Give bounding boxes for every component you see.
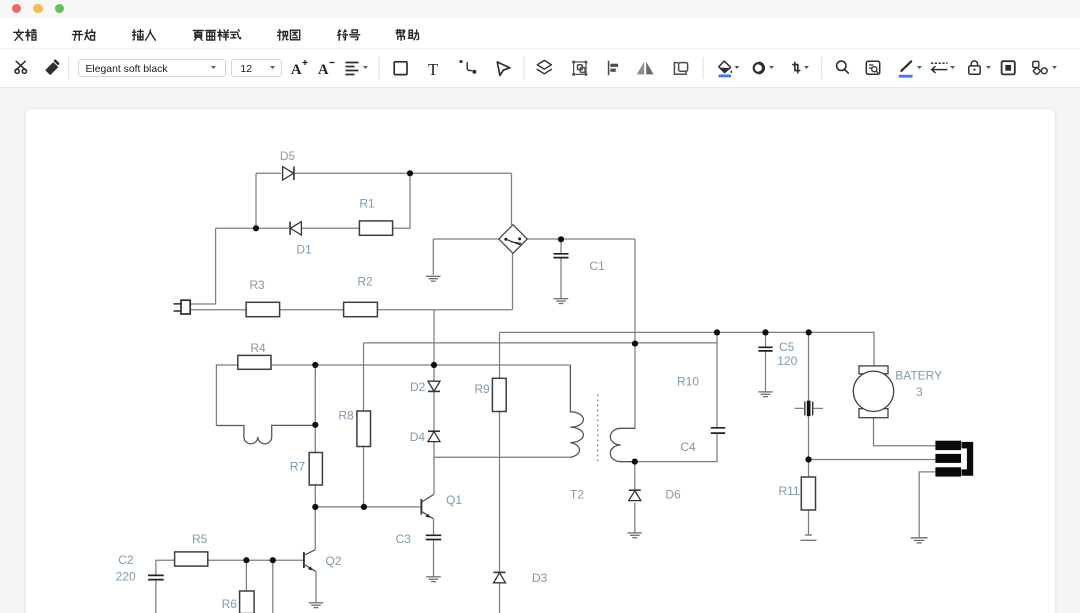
- ground: [758, 392, 773, 397]
- resistor R3: [246, 278, 280, 316]
- node D: [312, 362, 318, 368]
- node I: [806, 329, 812, 335]
- diode D4: [410, 430, 440, 444]
- transformer T2 core: [597, 395, 599, 463]
- svg-text:BATERY: BATERY: [895, 369, 942, 383]
- wire: [874, 418, 936, 446]
- node G: [714, 329, 720, 335]
- node J: [312, 422, 318, 428]
- svg-text:R11: R11: [778, 484, 799, 498]
- wire: [280, 309, 344, 311]
- wire: [527, 238, 635, 240]
- node C: [558, 236, 564, 242]
- resistor R6: [222, 591, 254, 613]
- svg-text:D6: D6: [665, 488, 681, 502]
- svg-text:3: 3: [916, 385, 923, 399]
- crystal Y1: [795, 401, 823, 417]
- wire: [315, 506, 421, 508]
- diode D2: [410, 380, 440, 394]
- wire: [499, 412, 501, 572]
- wire: [272, 560, 274, 613]
- wire: [808, 332, 810, 400]
- diode D6: [629, 488, 681, 502]
- wire: [190, 309, 246, 311]
- wire: [433, 457, 435, 495]
- svg-text:12: 12: [241, 64, 253, 75]
- transistor Q1: [421, 493, 462, 519]
- wire: [512, 254, 514, 310]
- svg-text:C4: C4: [680, 440, 696, 454]
- svg-text:A: A: [318, 62, 329, 78]
- resistor R5: [175, 532, 208, 566]
- battery BATERY 3: [853, 366, 942, 418]
- svg-text:Elegant soft black: Elegant soft black: [86, 64, 169, 75]
- svg-text:C3: C3: [396, 532, 412, 546]
- svg-text:D5: D5: [280, 149, 296, 163]
- svg-text:220: 220: [116, 570, 136, 584]
- svg-text:R8: R8: [338, 409, 354, 423]
- wire: [635, 434, 717, 462]
- node N: [270, 557, 276, 563]
- svg-text:R1: R1: [359, 197, 375, 211]
- svg-text:C2: C2: [118, 553, 134, 567]
- resistor R7: [290, 453, 323, 486]
- wire: [363, 447, 365, 507]
- capacitor C4: [680, 428, 725, 454]
- wire: [560, 239, 562, 253]
- svg-text:C5: C5: [779, 340, 795, 354]
- wire: [245, 560, 247, 591]
- resistor R9: [474, 378, 506, 411]
- wire: [765, 332, 767, 347]
- node A: [407, 170, 413, 176]
- wire: [216, 227, 289, 229]
- diode D3: [494, 571, 548, 585]
- capacitor C1: [554, 254, 605, 273]
- wire: [434, 442, 570, 458]
- node O: [632, 459, 638, 465]
- wire: [432, 239, 434, 275]
- wire: [433, 540, 435, 576]
- wire: [315, 571, 317, 602]
- inductor T2 secondary: [570, 428, 635, 501]
- svg-text:R7: R7: [290, 460, 306, 474]
- diode D5: [280, 149, 296, 180]
- svg-text:R6: R6: [222, 597, 238, 611]
- connector J1: [935, 441, 973, 477]
- ground: [426, 276, 441, 281]
- capacitor C3: [396, 532, 442, 546]
- svg-text:C1: C1: [589, 259, 605, 273]
- resistor R11: [778, 477, 815, 510]
- node F: [632, 341, 638, 347]
- wire: [256, 172, 281, 174]
- wire: [255, 173, 257, 228]
- svg-text:120: 120: [777, 354, 797, 368]
- resistor R8: [338, 409, 370, 447]
- wire: [364, 342, 718, 344]
- diode D1: [290, 222, 312, 257]
- node L: [312, 504, 318, 510]
- resistor R2: [344, 275, 378, 317]
- svg-text:Q2: Q2: [325, 554, 341, 568]
- wire: [363, 343, 365, 411]
- wire: [560, 258, 562, 298]
- inductor T2 primary: [570, 365, 583, 457]
- wire: [271, 364, 570, 366]
- wire: [634, 503, 636, 533]
- wire: [190, 228, 216, 304]
- node B: [253, 225, 259, 231]
- node H: [762, 329, 768, 335]
- ground (J1): [911, 538, 928, 543]
- resistor R1: [359, 197, 392, 236]
- ground: [426, 577, 441, 582]
- svg-text:R10: R10: [677, 375, 699, 389]
- svg-text:Q1: Q1: [446, 493, 462, 507]
- wire: [808, 510, 810, 534]
- wire: [433, 519, 435, 535]
- svg-text:A: A: [291, 62, 302, 78]
- wire: [433, 310, 435, 381]
- wire: [314, 485, 316, 507]
- svg-text:D1: D1: [296, 243, 312, 257]
- ground: [309, 603, 324, 608]
- wire: [765, 351, 767, 391]
- transistor Q2: [304, 507, 342, 572]
- wire: [208, 559, 303, 561]
- svg-text:R5: R5: [192, 532, 208, 546]
- wire: [433, 392, 435, 431]
- wire: [433, 238, 499, 240]
- ground: [628, 533, 643, 538]
- wire: [808, 416, 810, 459]
- inductor L1 (breaker coil): [216, 425, 315, 443]
- resistor R4: [238, 341, 271, 369]
- wire: [634, 462, 636, 491]
- wire: [919, 472, 935, 537]
- wire: [216, 365, 237, 426]
- switch S1 (diamond enclosure): [499, 225, 527, 254]
- svg-text:T2: T2: [570, 488, 584, 502]
- connector P1 (AC plug): [174, 300, 191, 314]
- svg-text:T: T: [428, 60, 438, 79]
- wire: [393, 173, 410, 228]
- node P: [805, 456, 811, 462]
- wire: [634, 239, 636, 428]
- wire: [500, 332, 875, 366]
- wire: [809, 459, 936, 461]
- wire: [156, 560, 175, 575]
- wire: [808, 460, 810, 478]
- wire: [499, 332, 501, 378]
- ground: [554, 299, 569, 304]
- svg-text:D4: D4: [410, 430, 426, 444]
- svg-text:R9: R9: [474, 382, 490, 396]
- wire: [716, 332, 718, 427]
- wire: [295, 172, 512, 174]
- svg-text:D3: D3: [532, 571, 548, 585]
- wire: [511, 173, 513, 225]
- svg-text:D2: D2: [410, 380, 426, 394]
- node K: [361, 504, 367, 510]
- capacitor C2: [118, 553, 163, 580]
- svg-text:R4: R4: [250, 341, 266, 355]
- capacitor C5: [758, 340, 794, 354]
- wire: [302, 227, 359, 229]
- ground (R11): [801, 535, 817, 540]
- wire: [314, 365, 316, 453]
- wire: [377, 309, 512, 311]
- wire: [155, 580, 157, 613]
- svg-text:R3: R3: [249, 278, 265, 292]
- node E: [431, 362, 437, 368]
- wire: [499, 583, 501, 613]
- node M: [243, 557, 249, 563]
- svg-text:R2: R2: [357, 275, 373, 289]
